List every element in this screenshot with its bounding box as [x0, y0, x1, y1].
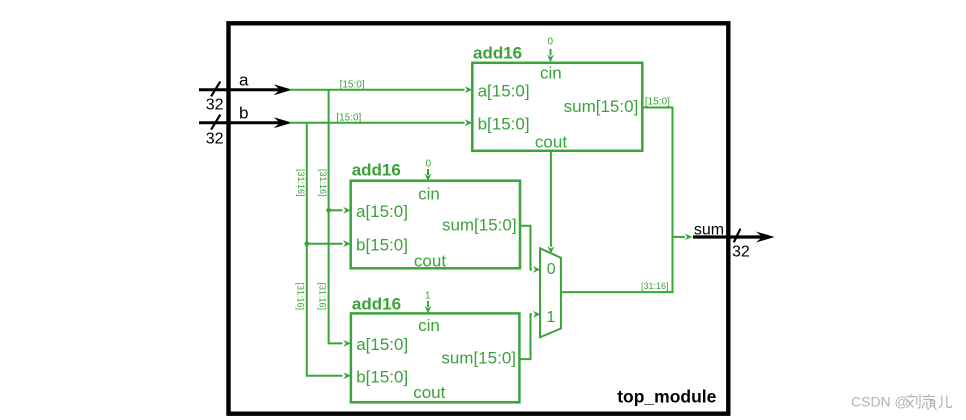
svg-text:cin: cin	[418, 316, 440, 335]
svg-text:0: 0	[547, 261, 556, 278]
svg-text:[31:16]: [31:16]	[296, 169, 306, 197]
svg-text:add16: add16	[352, 295, 401, 314]
svg-text:cin: cin	[540, 63, 562, 82]
svg-text:CSDN @: CSDN @	[851, 393, 909, 409]
svg-text:top_module: top_module	[617, 386, 716, 406]
svg-text:b[15:0]: b[15:0]	[356, 235, 408, 254]
svg-text:sum[15:0]: sum[15:0]	[564, 97, 639, 116]
svg-text:b[15:0]: b[15:0]	[356, 367, 408, 386]
svg-text:b: b	[239, 103, 248, 122]
svg-text:cout: cout	[413, 383, 445, 402]
svg-text:a[15:0]: a[15:0]	[478, 81, 530, 100]
svg-text:cout: cout	[414, 252, 446, 271]
svg-text:[15:0]: [15:0]	[340, 79, 365, 90]
svg-text:a[15:0]: a[15:0]	[356, 202, 408, 221]
svg-text:32: 32	[732, 243, 750, 260]
svg-text:[15:0]: [15:0]	[645, 96, 670, 107]
svg-text:32: 32	[206, 96, 224, 113]
svg-text:cin: cin	[418, 184, 440, 203]
svg-text:add16: add16	[352, 161, 401, 180]
svg-text:1: 1	[546, 309, 555, 326]
svg-text:sum[15:0]: sum[15:0]	[441, 349, 516, 368]
svg-text:[31:16]: [31:16]	[318, 283, 328, 311]
svg-text:0: 0	[548, 37, 554, 48]
svg-text:cout: cout	[535, 133, 567, 152]
svg-text:a[15:0]: a[15:0]	[356, 335, 408, 354]
svg-text:add16: add16	[473, 43, 522, 62]
svg-text:a: a	[239, 71, 249, 90]
svg-text:b[15:0]: b[15:0]	[478, 114, 530, 133]
svg-text:[15:0]: [15:0]	[336, 113, 361, 124]
svg-text:0: 0	[426, 159, 432, 170]
svg-text:sum: sum	[694, 222, 724, 239]
svg-text:sum[15:0]: sum[15:0]	[442, 215, 517, 234]
svg-text:[31:16]: [31:16]	[318, 169, 328, 197]
svg-text:32: 32	[206, 131, 224, 148]
svg-text:[31:16]: [31:16]	[296, 283, 306, 311]
svg-text:1: 1	[425, 290, 431, 301]
svg-text:[31:16]: [31:16]	[641, 281, 669, 291]
